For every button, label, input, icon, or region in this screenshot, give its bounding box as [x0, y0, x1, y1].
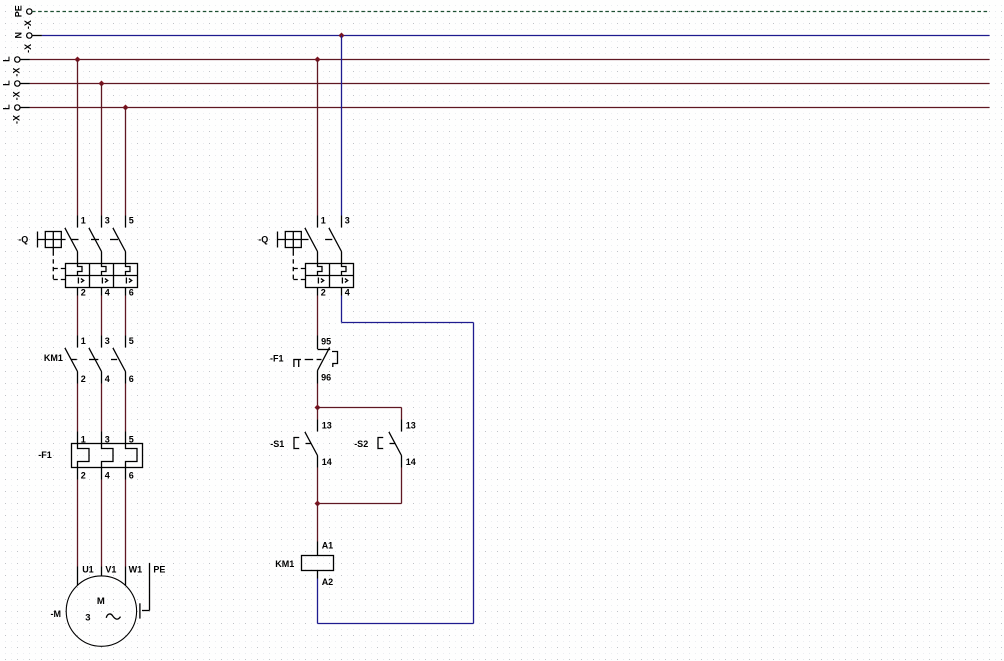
breaker trip link dash lower — [293, 279, 305, 281]
pushbutton -S1 pin 14 — [317, 456, 319, 468]
svg-text:KM1: KM1 — [44, 353, 63, 363]
contactor KM1 pin 1 — [77, 336, 79, 348]
node junction L1/right circuit — [315, 57, 321, 63]
thermal trip element — [342, 264, 347, 276]
breaker -Q trip block body — [66, 264, 138, 288]
overload contact pin 95 — [317, 336, 319, 350]
svg-text:-X: -X — [23, 44, 33, 53]
thermal trip element — [78, 264, 83, 276]
breaker operator crossed box — [45, 232, 61, 248]
breaker operator linkage dashes — [325, 239, 332, 241]
overload contact blade NC — [318, 347, 330, 370]
node junction N/right circuit — [339, 33, 345, 39]
svg-text:-X: -X — [23, 20, 33, 29]
wire L1 bus — [30, 59, 990, 61]
terminal strip -X : N terminal — [27, 33, 32, 38]
svg-text:1: 1 — [81, 434, 86, 444]
overload -F1 pin 6 — [125, 468, 127, 480]
breaker trip link dash lower — [53, 279, 65, 281]
wire N bus black stub — [32, 35, 42, 37]
thermal trip element — [126, 264, 131, 276]
motor -M body — [66, 576, 136, 646]
switch blade pole (pin 3) — [89, 228, 102, 252]
magnetic trip element I> — [102, 278, 107, 284]
svg-text:A2: A2 — [322, 577, 334, 587]
wire KM1 4 to F1 3 — [101, 384, 103, 432]
pushbutton -S2 blade — [389, 432, 402, 456]
overload contact pin 96 — [317, 371, 319, 384]
svg-text:-M: -M — [51, 609, 62, 619]
switch blade pole (pin 1) — [305, 228, 318, 252]
svg-text:-X: -X — [11, 91, 21, 100]
wire F1 6 to motor W1 — [125, 480, 127, 567]
svg-text:L: L — [2, 56, 12, 62]
svg-text:5: 5 — [129, 336, 134, 346]
wire F1 2 to motor U1 — [77, 480, 79, 567]
overload -F1 body — [72, 444, 143, 468]
switch blade pole (pin 5) — [113, 228, 126, 252]
pushbutton -S2 actuator — [378, 438, 383, 449]
contactor KM1 blade 1-2 — [65, 348, 78, 372]
wire junction A to S2 branch — [318, 407, 402, 409]
breaker operator crossed box — [285, 232, 301, 248]
overload actuator link dashes — [305, 359, 322, 361]
svg-text:M: M — [97, 596, 105, 607]
contactor KM1 pin 5 — [125, 336, 127, 348]
wire L1 down to right -Q pole1 — [317, 60, 319, 216]
switch blade pole (pin 1) — [65, 228, 78, 252]
motor -M PE connection — [142, 610, 150, 612]
svg-text:3: 3 — [105, 215, 110, 225]
wire junction A down to S1 — [317, 408, 319, 420]
svg-text:4: 4 — [105, 374, 110, 384]
motor -M lead V1 — [101, 567, 103, 577]
wire L1 bus black stub — [20, 59, 30, 61]
svg-text:1: 1 — [81, 336, 86, 346]
svg-text:3: 3 — [85, 612, 90, 623]
coil KM1 pin A1 — [317, 542, 319, 556]
motor tilde — [106, 614, 120, 619]
svg-text:2: 2 — [81, 471, 86, 481]
pushbutton -S2 actuator dash — [390, 443, 396, 445]
terminal strip -X : L3 terminal — [15, 105, 20, 110]
wire S2 14 down — [401, 468, 403, 504]
wire -Q 6 to KM1 5 — [125, 296, 127, 336]
svg-text:-F1: -F1 — [270, 354, 284, 364]
motor -M PE clamp tick — [139, 603, 141, 618]
overload thermal actuator symbol — [293, 359, 301, 361]
svg-text:-Q: -Q — [258, 235, 268, 245]
svg-text:2: 2 — [81, 288, 86, 298]
magnetic trip element I> — [78, 278, 83, 284]
svg-text:96: 96 — [321, 373, 331, 383]
node junction L3/left — [123, 105, 129, 111]
wire right -Q 4 down (N) — [341, 296, 343, 323]
overload -F1 pin 1 — [77, 432, 79, 444]
terminal strip -X : PE terminal — [27, 9, 32, 14]
svg-text:6: 6 — [129, 374, 134, 384]
wire junction B to coil A1 — [317, 504, 319, 542]
magnetic trip element I> — [342, 278, 347, 284]
overload contact stop bracket — [332, 352, 338, 368]
wire 96 to junction A — [317, 384, 319, 408]
svg-text:-S2: -S2 — [354, 439, 368, 449]
thermal trip element — [102, 264, 107, 276]
wire N loop horizontal upper — [342, 322, 474, 324]
pushbutton -S2 pin 13 — [401, 420, 403, 432]
contactor KM1 pin 2 — [77, 372, 79, 384]
contactor KM1 pin 4 — [101, 372, 103, 384]
overload -F1 pin 5 — [125, 432, 127, 444]
svg-text:6: 6 — [129, 288, 134, 298]
overload -F1 pin 4 — [101, 468, 103, 480]
breaker trip link dash upper — [53, 268, 65, 270]
wire N loop horizontal lower — [318, 623, 474, 625]
pushbutton -S1 actuator — [294, 438, 299, 449]
breaker operator linkage dashes — [71, 239, 119, 241]
overload -F1 pin 3 — [101, 432, 103, 444]
pin 4 — [341, 288, 343, 296]
wire L2 bus black stub — [20, 83, 30, 85]
wire N loop right vertical — [473, 323, 475, 624]
svg-text:5: 5 — [129, 215, 134, 225]
pin 2 — [317, 288, 319, 296]
svg-text:-S1: -S1 — [270, 439, 284, 449]
svg-text:-X: -X — [11, 68, 21, 77]
contactor KM1 linkage dashes — [71, 359, 117, 361]
pushbutton -S1 blade — [305, 432, 318, 456]
svg-text:L: L — [2, 104, 12, 110]
wire PE bus (green dashed) — [32, 11, 990, 13]
wire KM1 2 to F1 1 — [77, 384, 79, 432]
pin 2 — [77, 288, 79, 296]
breaker trip link dash upper — [293, 268, 305, 270]
pin 5 — [125, 216, 127, 228]
terminal strip -X : L2 terminal — [15, 81, 20, 86]
coil KM1 pin A2 — [317, 571, 319, 579]
svg-text:2: 2 — [321, 288, 326, 298]
svg-text:-F1: -F1 — [38, 450, 52, 460]
thermal trip element — [318, 264, 323, 276]
magnetic trip element I> — [126, 278, 131, 284]
breaker operator bar — [37, 232, 39, 248]
contactor KM1 pin 6 — [125, 372, 127, 384]
overload -F1 thermal element — [102, 444, 114, 468]
svg-text:4: 4 — [345, 288, 350, 298]
breaker operator bar — [277, 232, 279, 248]
svg-text:13: 13 — [322, 421, 332, 431]
svg-text:14: 14 — [406, 457, 416, 467]
overload -F1 thermal element — [78, 444, 90, 468]
svg-text:1: 1 — [81, 215, 86, 225]
wire S2 branch down — [401, 408, 403, 420]
coil KM1 body — [302, 556, 334, 571]
contactor KM1 blade 5-6 — [113, 348, 126, 372]
svg-text:PE: PE — [14, 5, 24, 17]
svg-text:PE: PE — [153, 564, 165, 574]
node junction B — [315, 501, 321, 507]
breaker operator trip linkage vertical dashed — [292, 252, 294, 280]
contactor KM1 pin 3 — [101, 336, 103, 348]
breaker operator trip linkage vertical dashed — [52, 252, 54, 280]
wire N bus — [42, 35, 990, 37]
svg-text:95: 95 — [321, 337, 331, 347]
breaker -Q right trip block body — [306, 264, 354, 288]
pin 4 — [101, 288, 103, 296]
wire L3 down to -Q pole3 — [125, 108, 127, 216]
svg-text:3: 3 — [105, 336, 110, 346]
pin 3 — [101, 216, 103, 228]
overload -F1 thermal element — [126, 444, 138, 468]
motor -M PE lead — [149, 563, 151, 611]
wire right -Q 2 down to F1 95 — [317, 296, 319, 336]
svg-text:3: 3 — [345, 215, 350, 225]
pushbutton -S1 pin 13 — [317, 420, 319, 432]
svg-text:5: 5 — [129, 434, 134, 444]
wire F1 4 to motor V1 — [101, 480, 103, 567]
wire KM1 6 to F1 5 — [125, 384, 127, 432]
pushbutton -S2 pin 14 — [401, 456, 403, 468]
overload contact top stub — [318, 349, 331, 351]
svg-text:U1: U1 — [82, 564, 94, 574]
wire -Q 2 to KM1 1 — [77, 296, 79, 336]
svg-text:13: 13 — [406, 421, 416, 431]
wire L3 bus black stub — [20, 107, 30, 109]
svg-text:14: 14 — [322, 457, 332, 467]
svg-text:2: 2 — [81, 374, 86, 384]
svg-text:-X: -X — [11, 115, 21, 124]
contactor KM1 blade 3-4 — [89, 348, 102, 372]
wire N down to right -Q pole2 — [341, 36, 343, 216]
svg-text:4: 4 — [105, 288, 110, 298]
wire L2 down to -Q pole2 — [101, 84, 103, 216]
node junction A — [315, 405, 321, 411]
motor -M lead U1 — [77, 567, 79, 586]
wire -Q 4 to KM1 3 — [101, 296, 103, 336]
magnetic trip element I> — [318, 278, 323, 284]
svg-text:3: 3 — [105, 434, 110, 444]
wire S2 branch bottom horizontal — [318, 503, 402, 505]
wire L3 bus — [30, 107, 990, 109]
svg-text:6: 6 — [129, 471, 134, 481]
wire N loop up to coil A2 — [317, 579, 319, 624]
pin 3 — [341, 216, 343, 228]
node junction L1/left — [75, 57, 81, 63]
svg-text:L: L — [2, 80, 12, 86]
svg-text:N: N — [14, 32, 24, 39]
pin 1 — [317, 216, 319, 228]
switch blade pole (pin 3) — [329, 228, 342, 252]
svg-text:4: 4 — [105, 471, 110, 481]
svg-text:-Q: -Q — [18, 235, 28, 245]
pushbutton -S1 actuator dash — [306, 443, 312, 445]
svg-text:V1: V1 — [105, 564, 116, 574]
pin 6 — [125, 288, 127, 296]
wire L1 down to -Q pole1 — [77, 60, 79, 216]
overload -F1 pin 2 — [77, 468, 79, 480]
svg-text:1: 1 — [321, 215, 326, 225]
svg-text:W1: W1 — [129, 564, 143, 574]
svg-text:A1: A1 — [322, 541, 334, 551]
motor -M lead W1 — [125, 567, 127, 586]
terminal strip -X : L1 terminal — [15, 57, 20, 62]
wire S1 14 to junction B — [317, 468, 319, 504]
node junction L2/left — [99, 81, 105, 87]
svg-text:KM1: KM1 — [275, 559, 294, 569]
wire L2 bus — [30, 83, 990, 85]
pin 1 — [77, 216, 79, 228]
